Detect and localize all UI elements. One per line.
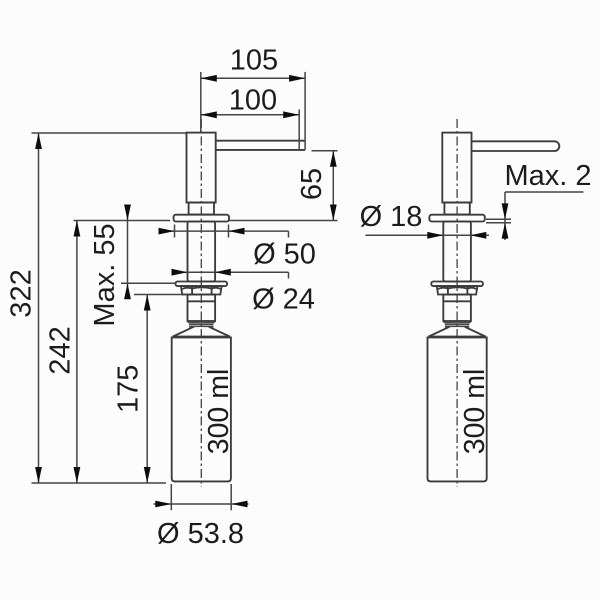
svg-text:Max. 2: Max. 2	[504, 160, 591, 192]
svg-text:Ø 24: Ø 24	[252, 284, 315, 316]
svg-text:Ø 53.8: Ø 53.8	[157, 518, 244, 550]
svg-text:Ø 50: Ø 50	[253, 239, 316, 271]
svg-text:100: 100	[229, 85, 277, 117]
svg-text:Max. 55: Max. 55	[89, 223, 121, 326]
svg-text:Ø 18: Ø 18	[360, 201, 423, 233]
svg-text:300 ml: 300 ml	[459, 369, 491, 455]
svg-text:105: 105	[230, 45, 278, 77]
svg-text:242: 242	[44, 326, 76, 374]
svg-text:175: 175	[113, 365, 145, 413]
svg-text:65: 65	[296, 168, 328, 200]
svg-text:322: 322	[6, 269, 38, 317]
svg-text:300 ml: 300 ml	[203, 369, 235, 455]
